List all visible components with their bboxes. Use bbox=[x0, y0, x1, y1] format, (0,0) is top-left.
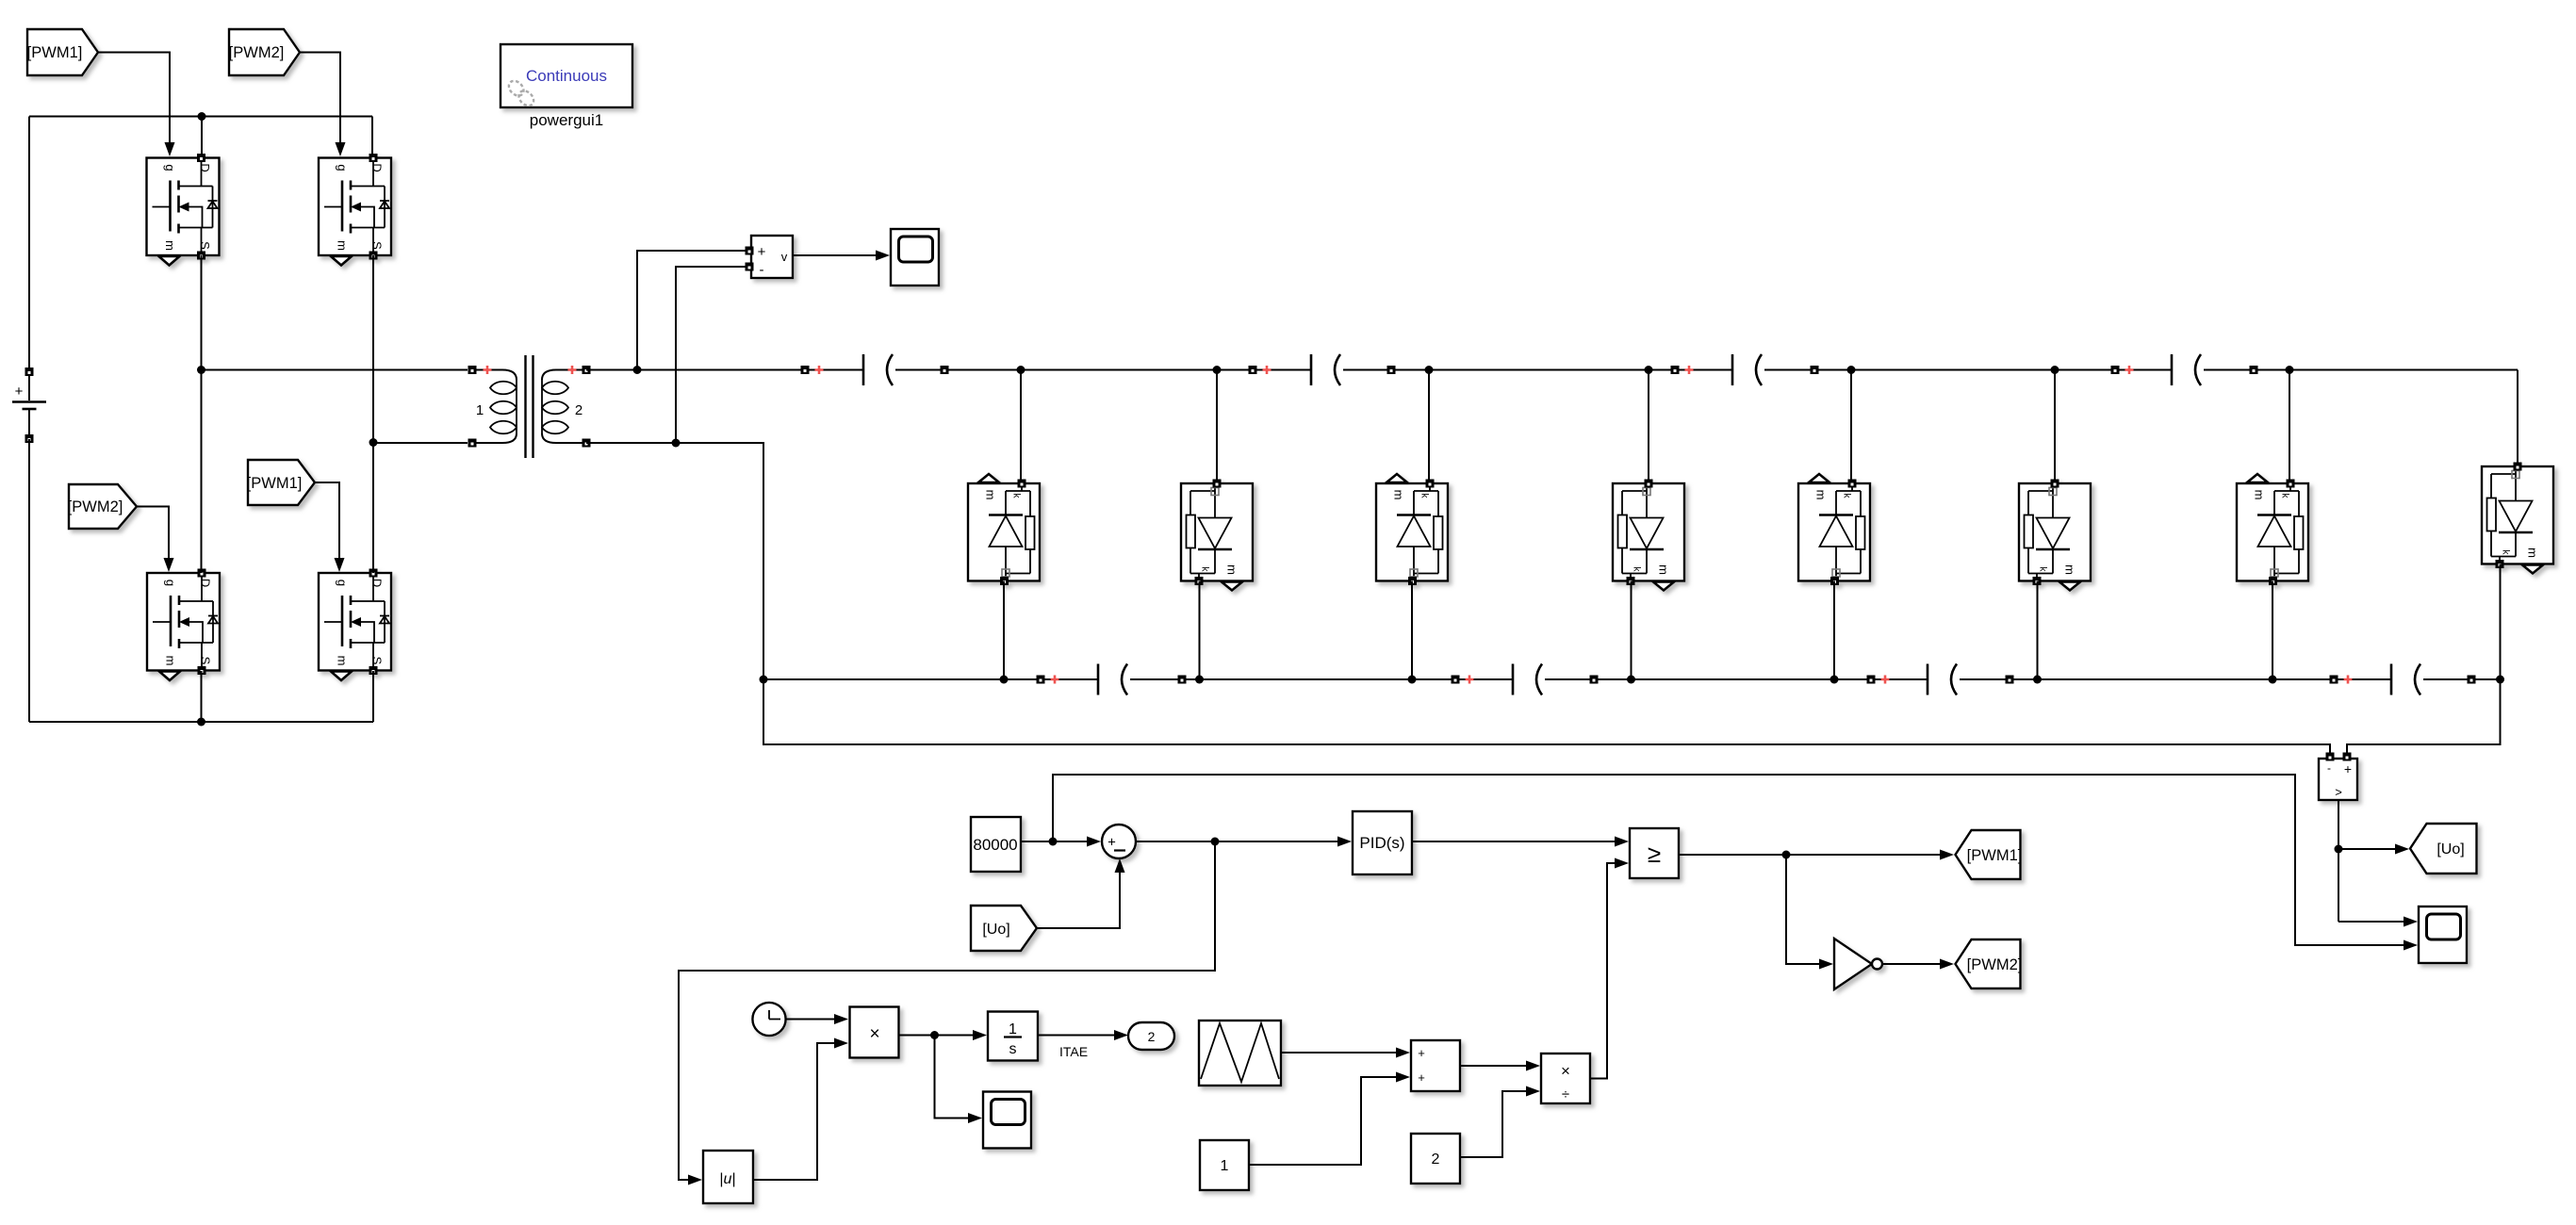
transformer T1 secondary coil bbox=[542, 380, 568, 433]
svg-text:[Uo]: [Uo] bbox=[982, 922, 1009, 938]
capacitor C6 port + bbox=[1867, 676, 1876, 684]
diode block D2 (flipped) bbox=[1181, 480, 1253, 591]
transformer polarity + primary bbox=[484, 366, 492, 374]
capacitor C4 port - bbox=[1590, 676, 1599, 684]
wire U3 output down bbox=[2338, 800, 2339, 922]
wire product to integrator bbox=[899, 1030, 988, 1040]
svg-text:1: 1 bbox=[476, 402, 484, 418]
wire secondary bottom to Vmeas - bbox=[676, 267, 746, 443]
scope Scope2 bbox=[2419, 906, 2467, 963]
Goto tag [PWM2] bbox=[1956, 939, 2023, 988]
wire to goto tag Uo bbox=[2338, 844, 2409, 855]
MOSFET Q1 bbox=[147, 154, 220, 266]
capacitor C2 polarity + bbox=[1051, 676, 1059, 684]
junction bottom rail node M4 bbox=[1627, 676, 1635, 684]
capacitor C4 bbox=[1513, 664, 1542, 695]
node N1 junction bbox=[1017, 366, 1025, 374]
diode block D6 (flipped) bbox=[2019, 480, 2091, 591]
capacitor C2 port - bbox=[1178, 676, 1187, 684]
wire reference 80000 to scope2 input 2 bbox=[1053, 775, 2418, 951]
capacitor C7 port - bbox=[2250, 366, 2258, 374]
transformer port secondary - bbox=[582, 439, 591, 448]
capacitor C5 port + bbox=[1671, 366, 1680, 374]
capacitor C6 bbox=[1928, 664, 1957, 695]
transformer T1 primary lead top bbox=[472, 370, 517, 381]
wire diode block D8 to bottom rail bbox=[2500, 564, 2502, 680]
capacitor C3 bbox=[1311, 354, 1340, 385]
diode block D1 bbox=[968, 474, 1040, 585]
wire clock to product input 1 bbox=[786, 1014, 848, 1024]
capacitor C6 port - bbox=[2006, 676, 2014, 684]
transformer T1 primary lead bottom bbox=[472, 433, 517, 443]
wire top rail corner down to D16 bbox=[2517, 370, 2519, 467]
capacitor C8 bbox=[2391, 664, 2420, 695]
capacitor C2 port + bbox=[1037, 676, 1045, 684]
svg-text:+: + bbox=[2344, 761, 2352, 776]
capacitor C7 polarity + bbox=[2125, 366, 2134, 374]
node N5 junction bbox=[1847, 366, 1856, 374]
wire Vmeas to scope1 bbox=[793, 251, 890, 261]
transformer T1 secondary lead top bbox=[542, 370, 586, 381]
triangle wave generator block bbox=[1199, 1021, 1281, 1086]
svg-text:Continuous: Continuous bbox=[526, 67, 607, 85]
wire diode block D7 to bottom rail bbox=[2272, 581, 2273, 680]
junction PWM signal bbox=[1782, 851, 1791, 859]
junction bottom rail end bbox=[2496, 676, 2504, 684]
capacitor C4 port + bbox=[1452, 676, 1460, 684]
powergui block Continuous bbox=[500, 44, 632, 108]
transformer port primary - bbox=[468, 439, 477, 448]
junction 80000 output bbox=[1049, 838, 1058, 846]
svg-text:[PWM1]: [PWM1] bbox=[247, 475, 303, 492]
junction on DC+ rail bbox=[198, 112, 206, 121]
diode block D3 bbox=[1376, 474, 1448, 585]
svg-text:+: + bbox=[1418, 1070, 1425, 1085]
junction secondary bottom node bbox=[672, 439, 681, 448]
MOSFET Q4 bbox=[319, 569, 391, 681]
node N6 junction bbox=[2051, 366, 2059, 374]
wire diode block D3 to bottom rail bbox=[1411, 581, 1413, 680]
svg-text:÷: ÷ bbox=[1562, 1086, 1569, 1102]
junction bottom rail node M6 bbox=[2033, 676, 2042, 684]
MOSFET Q3 bbox=[147, 569, 220, 681]
scope Scope1 bbox=[891, 229, 939, 286]
svg-text:+: + bbox=[758, 244, 766, 260]
wire Q2 source to bridge midpoint B bbox=[372, 255, 374, 573]
junction bottom rail left end bbox=[760, 676, 768, 684]
integrator block 1/s bbox=[988, 1012, 1038, 1061]
scope Scope3 bbox=[983, 1092, 1031, 1149]
svg-text:[Uo]: [Uo] bbox=[2437, 841, 2464, 857]
wire U3 output to scope2 input 1 bbox=[2338, 917, 2418, 927]
capacitor C7 port + bbox=[2111, 366, 2120, 374]
divide block bbox=[1541, 1053, 1590, 1103]
wire Q4 source down bbox=[372, 671, 374, 722]
wire DC source - lead bbox=[28, 439, 30, 722]
abs block |u| bbox=[703, 1151, 753, 1203]
capacitor C6 polarity + bbox=[1881, 676, 1890, 684]
wire PWM2 tag to gate of Q2 bbox=[300, 53, 346, 157]
wire secondary top to Vmeas + bbox=[637, 251, 746, 370]
voltage measurement U3 (output voltage) bbox=[2319, 753, 2357, 801]
sum block (+-) bbox=[1102, 825, 1136, 858]
transformer port primary + bbox=[468, 366, 477, 374]
node N7 junction bbox=[2286, 366, 2294, 374]
capacitor C3 polarity + bbox=[1263, 366, 1272, 374]
bottom rail wire segments (y=721) bbox=[763, 678, 1098, 680]
svg-text:80000: 80000 bbox=[973, 836, 1017, 854]
wire node N1 to diode block D1 bbox=[1020, 370, 1022, 484]
wire DC source + lead bbox=[28, 117, 30, 368]
svg-text:[PWM2]: [PWM2] bbox=[1967, 956, 2023, 973]
wire Uo feedback to sum minus input bbox=[1037, 858, 1125, 928]
From tag [PWM2] (top) bbox=[229, 29, 300, 75]
wire sum to PID bbox=[1136, 837, 1352, 847]
svg-text:[PWM1]: [PWM1] bbox=[1967, 847, 2023, 864]
svg-text:+: + bbox=[1418, 1046, 1425, 1060]
constant block 1 bbox=[1200, 1140, 1249, 1190]
capacitor C1 port + bbox=[801, 366, 810, 374]
sum2 block (+ +) bbox=[1411, 1040, 1460, 1091]
wire DC- bottom rail bbox=[29, 721, 373, 723]
svg-text:1: 1 bbox=[1009, 1021, 1017, 1037]
diode block D5 bbox=[1798, 474, 1870, 585]
svg-text:-: - bbox=[2327, 761, 2331, 775]
svg-text:>: > bbox=[2335, 785, 2342, 799]
product block x bbox=[850, 1007, 899, 1058]
wire diode block D5 to bottom rail bbox=[1833, 581, 1835, 680]
capacitor C7 bbox=[2172, 354, 2201, 385]
node N3 junction bbox=[1425, 366, 1434, 374]
svg-text:PID(s): PID(s) bbox=[1359, 834, 1404, 852]
wire node N7 to diode block D7 bbox=[2289, 370, 2290, 484]
constant block 2 bbox=[1411, 1134, 1460, 1184]
wire divide to relational operator input 2 bbox=[1590, 858, 1629, 1079]
wire NOT gate to goto PWM2 bbox=[1882, 959, 1954, 970]
wire triangle wave to sum2 input 1 bbox=[1281, 1048, 1410, 1058]
capacitor C1 port - bbox=[941, 366, 949, 374]
svg-text:|u|: |u| bbox=[719, 1171, 735, 1187]
DC voltage source battery bbox=[12, 367, 46, 443]
wire node N3 to diode block D3 bbox=[1428, 370, 1430, 484]
wire node N4 to diode block D4 bbox=[1648, 370, 1649, 484]
capacitor C8 polarity + bbox=[2344, 676, 2353, 684]
wire PID to relational operator bbox=[1412, 837, 1629, 847]
From tag [PWM2] (lower) bbox=[68, 484, 137, 529]
top rail wire segments (y=392.5) bbox=[586, 369, 863, 371]
svg-text:≥: ≥ bbox=[1648, 840, 1661, 868]
wire node N6 to diode block D6 bbox=[2054, 370, 2056, 484]
transformer core bbox=[526, 355, 533, 458]
svg-text:v: v bbox=[781, 250, 788, 264]
transformer polarity + secondary bbox=[568, 366, 577, 374]
wire constant 2 to divide input 2 bbox=[1460, 1086, 1540, 1158]
constant block 80000 bbox=[971, 817, 1021, 872]
svg-text:×: × bbox=[869, 1024, 879, 1044]
wire PWM1 tag to gate of Q1 bbox=[98, 53, 175, 157]
wire Q3 source down bbox=[201, 671, 203, 722]
MOSFET Q2 bbox=[319, 154, 391, 266]
capacitor C5 polarity + bbox=[1685, 366, 1694, 374]
wire diode block D4 to bottom rail bbox=[1631, 581, 1633, 680]
junction bottom rail node M1 bbox=[1000, 676, 1009, 684]
svg-text:powergui1: powergui1 bbox=[530, 111, 603, 129]
junction bottom rail node M2 bbox=[1195, 676, 1204, 684]
diode block D4 (flipped) bbox=[1613, 480, 1684, 591]
wire abs to product input 2 bbox=[753, 1038, 848, 1181]
capacitor C8 port - bbox=[2468, 676, 2476, 684]
svg-text:2: 2 bbox=[1148, 1029, 1156, 1044]
capacitor C2 bbox=[1098, 664, 1127, 695]
capacitor C5 bbox=[1732, 354, 1762, 385]
svg-text:2: 2 bbox=[575, 402, 582, 418]
voltage measurement U2 bbox=[746, 236, 794, 278]
diode block D8 (flipped) bbox=[2482, 463, 2553, 574]
capacitor C3 port - bbox=[1387, 366, 1396, 374]
svg-text:ITAE: ITAE bbox=[1059, 1044, 1088, 1059]
wire transformer secondary - to bottom rail bbox=[586, 443, 763, 679]
From tag [PWM1] (top left) bbox=[27, 29, 98, 75]
wire PWM1 tag to gate of Q4 bbox=[315, 482, 345, 572]
junction U3 output bbox=[2335, 845, 2343, 854]
junction bottom rail node M5 bbox=[1830, 676, 1839, 684]
junction bottom rail node M3 bbox=[1408, 676, 1417, 684]
svg-text:+: + bbox=[1108, 835, 1116, 851]
junction ITAE signal bbox=[930, 1031, 939, 1039]
Goto tag [Uo] bbox=[2410, 824, 2477, 874]
wire PWM2 tag to gate of Q3 bbox=[137, 507, 174, 573]
From tag [Uo] bbox=[971, 906, 1037, 951]
wire PWM signal to NOT gate bbox=[1786, 855, 1833, 970]
wire midpoint B to transformer primary - bbox=[373, 442, 468, 444]
wire relational output to goto PWM1 bbox=[1679, 850, 1954, 860]
transformer T1 secondary lead bottom bbox=[542, 433, 586, 443]
capacitor C1 bbox=[863, 354, 893, 385]
capacitor C1 polarity + bbox=[815, 366, 824, 374]
wire ITAE to scope3 bbox=[935, 1036, 983, 1124]
svg-text:2: 2 bbox=[1432, 1151, 1440, 1168]
node N2 junction bbox=[1213, 366, 1222, 374]
junction bottom bridge rail bbox=[197, 718, 205, 727]
wire Q1 source to bridge midpoint A bbox=[201, 255, 203, 573]
wire node N2 to diode block D2 bbox=[1216, 370, 1218, 484]
junction error signal bbox=[1211, 838, 1220, 846]
diode block D7 bbox=[2237, 474, 2308, 585]
capacitor C5 port - bbox=[1811, 366, 1819, 374]
svg-text:[PWM2]: [PWM2] bbox=[68, 498, 123, 515]
svg-text:[PWM2]: [PWM2] bbox=[229, 44, 285, 61]
wire error to abs block bbox=[679, 841, 1215, 1185]
wire diode block D6 to bottom rail bbox=[2037, 581, 2039, 680]
svg-text:s: s bbox=[1009, 1041, 1017, 1057]
From tag [PWM1] (lower) bbox=[247, 460, 315, 505]
PID controller block PID(s) bbox=[1353, 811, 1412, 874]
svg-text:[PWM1]: [PWM1] bbox=[27, 44, 83, 61]
transformer T1 primary coil bbox=[490, 380, 517, 433]
node N4 junction bbox=[1645, 366, 1653, 374]
relational operator block >= bbox=[1630, 828, 1679, 878]
outport 2 bbox=[1128, 1022, 1174, 1050]
wire diode block D1 to bottom rail bbox=[1003, 581, 1005, 680]
junction secondary top node bbox=[633, 366, 642, 374]
junction bottom rail node M7 bbox=[2269, 676, 2277, 684]
wire rail to drain Q1 bbox=[201, 117, 203, 155]
wire midpoint A to transformer primary + bbox=[202, 369, 468, 371]
clock block bbox=[752, 1003, 785, 1036]
svg-text:×: × bbox=[1561, 1062, 1570, 1080]
wire bottom rail right to Uo measurement + input bbox=[2347, 679, 2501, 753]
capacitor C8 port + bbox=[2330, 676, 2338, 684]
wire constant 1 to sum2 input 2 bbox=[1249, 1072, 1410, 1166]
wire bottom rail left to Uo measurement - input bbox=[763, 679, 2330, 753]
svg-text:+: + bbox=[15, 384, 24, 400]
wire node N5 to diode block D5 bbox=[1850, 370, 1852, 484]
wire 80000 to sum bbox=[1021, 837, 1101, 847]
node B junction bbox=[369, 438, 378, 447]
capacitor C3 port + bbox=[1249, 366, 1257, 374]
svg-text:1: 1 bbox=[1221, 1158, 1229, 1174]
capacitor C4 polarity + bbox=[1466, 676, 1474, 684]
wire rail to drain Q2 bbox=[371, 117, 373, 155]
transformer port secondary + bbox=[582, 366, 591, 374]
wire DC+ top rail bbox=[29, 116, 372, 118]
wire diode block D2 to bottom rail bbox=[1199, 581, 1201, 680]
wire integrator to outport 2 with label ITAE bbox=[1038, 1030, 1128, 1040]
svg-text:-: - bbox=[760, 262, 764, 278]
wire sum2 to divide input 1 bbox=[1460, 1061, 1540, 1071]
Goto tag [PWM1] bbox=[1956, 830, 2023, 879]
logical NOT gate bbox=[1834, 939, 1882, 989]
node A junction bbox=[197, 366, 205, 374]
